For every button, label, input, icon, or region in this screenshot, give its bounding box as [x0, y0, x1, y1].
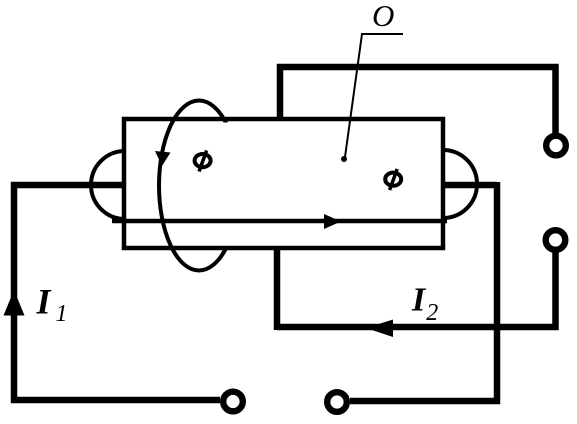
label flux left (Phi glyph drawn) [195, 151, 211, 172]
terminal bottom left [223, 392, 243, 412]
arrowhead I1 (pointing up) [4, 290, 25, 316]
wire I1 loop: left lead, left vertical, bottom lead [14, 185, 220, 400]
terminal lower right [546, 230, 566, 250]
leader line for label O [345, 34, 403, 157]
core O (rectangle body) [124, 119, 443, 248]
wire from lower right terminal down [552, 252, 559, 330]
mask of hidden back side of turn [206, 123, 246, 248]
leader dot on core [341, 156, 347, 162]
axial line through core [112, 219, 447, 224]
wire vertical below core [274, 248, 281, 330]
winding turn (ellipse loop around core) [159, 101, 239, 271]
core right end face (semicircle) [443, 150, 477, 218]
arrowhead I2 (pointing left) [366, 320, 393, 338]
label flux right (Phi glyph drawn) [385, 169, 401, 190]
terminal top right [546, 136, 566, 156]
wire top loop from behind core up and right [280, 67, 556, 133]
svg-text:I1: I1 [36, 282, 68, 328]
wire right vertical down to bottom terminal [350, 182, 497, 401]
wire I2 horizontal [277, 324, 559, 331]
arrowhead on axial line (flux direction, right) [324, 214, 341, 229]
svg-text:O: O [372, 0, 394, 33]
terminal bottom middle [327, 392, 347, 412]
svg-text:I2: I2 [411, 282, 438, 327]
core left end face (semicircle) [91, 151, 125, 219]
wire right lead through right end face [443, 182, 497, 189]
arrowhead on winding turn (pointing down) [155, 151, 171, 166]
